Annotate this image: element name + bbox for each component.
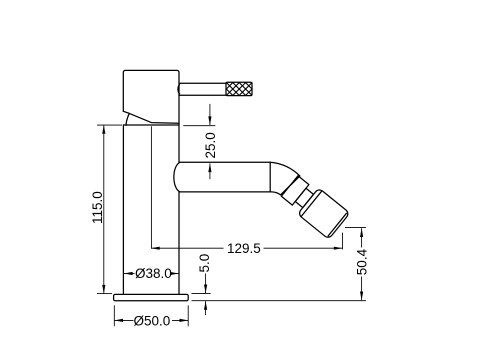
dim Ø38.0 line [124, 273, 135, 275]
angled spout pieces: connector, neck, aerator [279, 173, 350, 239]
handle lever tube [178, 83, 226, 95]
dim 5.0 extension lines [192, 293, 211, 295]
arrow 5.0 top (pointing down) [204, 285, 207, 294]
arrow 129.5 right [334, 247, 343, 250]
spout bend piece [270, 162, 300, 195]
dim 25.0 extension line [183, 125, 215, 127]
aerator ring line [301, 191, 322, 217]
svg-text:129.5: 129.5 [227, 241, 261, 256]
base flange [114, 294, 189, 300]
svg-text:Ø50.0: Ø50.0 [134, 314, 171, 329]
dim Ø50.0 extension lines [113, 305, 115, 326]
body column [123, 125, 179, 294]
arrow 129.5 left [151, 247, 160, 250]
arrow 50.4 top (pointing up) [360, 228, 363, 237]
aerator end face line [328, 213, 346, 236]
arrow Ø50.0 left [114, 319, 123, 322]
arrow 50.4 bottom (pointing down) [360, 292, 363, 301]
svg-text:115.0: 115.0 [90, 191, 105, 224]
arrow 25.0 bottom (pointing up) [208, 163, 211, 172]
arrow 5.0 bottom (pointing up) [204, 301, 207, 310]
dim 115.0 line [103, 125, 105, 294]
connector segment [281, 176, 309, 205]
knurled grip [213, 82, 265, 96]
arrow 25.0 top (pointing down) [208, 116, 211, 125]
arrow Ø50.0 right [180, 319, 189, 322]
dim 5.0 arrow stems [205, 274, 207, 294]
arrow Ø38.0 left [124, 272, 133, 275]
svg-text:25.0: 25.0 [203, 132, 218, 158]
spout tube [174, 162, 270, 192]
svg-text:Ø38.0: Ø38.0 [135, 266, 172, 281]
faucet head (cartridge housing) [123, 70, 179, 125]
arrow Ø38.0 right [170, 272, 179, 275]
dimension graphics [97, 104, 366, 326]
aerator body [298, 188, 350, 239]
dim 129.5 line [151, 247, 224, 249]
svg-text:5.0: 5.0 [197, 254, 212, 273]
svg-text:50.4: 50.4 [354, 248, 369, 275]
column centerline [150, 127, 152, 249]
arrow 115.0 top [102, 125, 105, 134]
dim 50.4 extension line [345, 227, 366, 229]
dim Ø50.0 line [114, 319, 133, 321]
dim 129.5 right extension [342, 233, 344, 250]
neck ring [295, 188, 313, 207]
dim 115.0 extension lines [97, 124, 122, 126]
dim 50.4 line [361, 228, 363, 247]
arrow 115.0 bottom [102, 285, 105, 294]
dim 25.0 arrow stems [209, 104, 211, 125]
